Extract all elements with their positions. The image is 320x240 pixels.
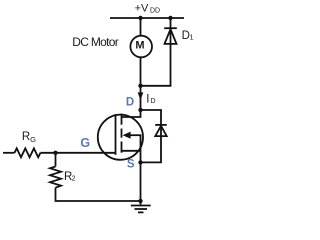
svg-text:I: I (146, 94, 149, 106)
svg-text:S: S (127, 159, 135, 171)
svg-text:R: R (22, 131, 30, 143)
svg-text:G: G (30, 135, 36, 144)
svg-text:2: 2 (72, 176, 76, 183)
svg-text:DD: DD (150, 8, 160, 15)
svg-text:G: G (80, 136, 90, 150)
svg-text:D: D (126, 97, 134, 109)
svg-text:D: D (151, 98, 156, 105)
svg-text:M: M (135, 40, 144, 52)
svg-text:1: 1 (190, 35, 194, 42)
svg-text:DC Motor: DC Motor (72, 35, 118, 49)
svg-text:+V: +V (135, 2, 149, 14)
